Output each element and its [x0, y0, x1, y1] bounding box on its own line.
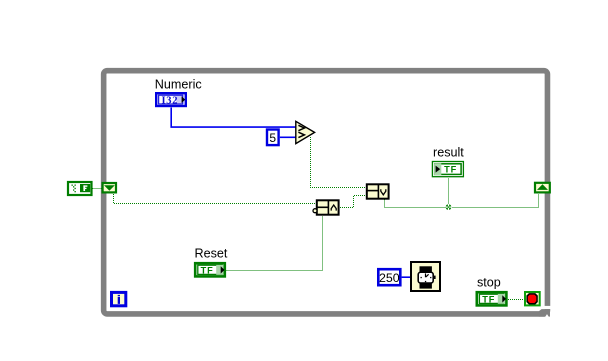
iteration terminal: [112, 292, 126, 305]
wait ms function: [411, 262, 440, 291]
svg-text:250: 250: [379, 271, 400, 285]
left shift register: [103, 183, 116, 192]
svg-text:Reset: Reset: [195, 247, 228, 261]
numeric constant 5: [267, 130, 279, 146]
stop TF control: [477, 292, 507, 305]
while loop border: [104, 71, 552, 317]
svg-text:TF: TF: [201, 266, 214, 276]
svg-text:I32: I32: [161, 95, 178, 106]
result TF indicator: [432, 162, 463, 177]
wire comparator to Or input: [311, 137, 366, 188]
And node: [313, 200, 339, 215]
svg-text:TF: TF: [444, 165, 457, 175]
wire left SR to And input: [114, 194, 316, 204]
svg-text:Numeric: Numeric: [155, 77, 202, 91]
svg-text:result: result: [433, 146, 464, 160]
Or node: [366, 184, 389, 199]
loop condition terminal: [525, 292, 540, 305]
comparator greater-or-equal: [296, 121, 315, 143]
wire 250 to wait: [402, 276, 410, 278]
svg-text:TF: TF: [482, 295, 495, 305]
wire Reset to And: [227, 216, 323, 271]
numeric constant 250: [378, 269, 400, 285]
numeric I32 control terminal: [156, 93, 186, 106]
svg-text:5: 5: [269, 131, 276, 145]
svg-text:stop: stop: [477, 275, 501, 289]
right shift register: [535, 183, 550, 193]
wire stop to loop condition: [508, 299, 524, 301]
wire And output to Or input: [340, 196, 366, 208]
wire Or output to right shift register: [385, 194, 539, 208]
false boolean constant: [68, 182, 92, 195]
wire I32 to comparator: [171, 108, 295, 128]
wire F to left shift register: [93, 188, 102, 190]
Reset TF control: [195, 263, 225, 276]
wire 5 to comparator: [280, 136, 296, 138]
wire junction dot: [445, 204, 451, 210]
wire junction to result: [448, 178, 450, 208]
